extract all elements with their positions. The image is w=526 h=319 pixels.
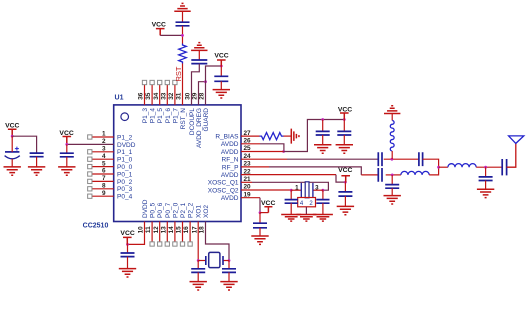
wire gnd to L1 — [391, 114, 393, 121]
pin 36 P1_3 (top) — [138, 80, 149, 123]
power VCC (bottom) — [120, 230, 134, 244]
ground below C18 — [337, 206, 354, 214]
junction far-left VCC — [11, 135, 14, 138]
svg-text:P1_4: P1_4 — [150, 108, 157, 124]
svg-text:RST: RST — [174, 66, 183, 81]
ground below C3 — [58, 167, 75, 175]
svg-text:32: 32 — [168, 92, 175, 100]
svg-text:P0_2: P0_2 — [117, 179, 133, 186]
pin 18 XO2 (bottom) — [199, 205, 210, 234]
wire C17 to antenna — [507, 143, 516, 167]
ground below C11 — [336, 145, 353, 153]
svg-text:14: 14 — [168, 226, 175, 234]
wire C4 to R1 — [182, 26, 184, 44]
pin 21 XOSC_Q1 (right label) — [208, 176, 251, 187]
junction pins25/26 — [282, 150, 285, 153]
svg-text:17: 17 — [191, 226, 198, 234]
label RST — [174, 66, 183, 81]
junction rail VCC — [343, 118, 346, 121]
svg-text:11: 11 — [145, 226, 152, 233]
capacitor C10 — [316, 131, 330, 135]
svg-text:DVDD: DVDD — [142, 199, 149, 218]
svg-text:P2_0: P2_0 — [172, 202, 179, 218]
svg-text:VCC: VCC — [5, 123, 19, 130]
wire pin28 to VCC — [206, 66, 222, 105]
svg-text:RF_P: RF_P — [222, 164, 239, 171]
wire pin20 — [241, 189, 291, 191]
capacitor C18 — [338, 192, 352, 196]
wire R1 to pin31 — [182, 64, 184, 105]
pin 35 P1_4 (top) — [145, 80, 156, 123]
capacitor C11 — [337, 131, 351, 135]
svg-text:15: 15 — [176, 226, 183, 234]
wire VCC to C6 — [220, 66, 222, 76]
svg-text:29: 29 — [192, 92, 199, 100]
wire C8 to ground — [197, 272, 199, 281]
capacitor C9 — [222, 269, 236, 273]
pin 7 P0_2 (left) — [88, 175, 133, 186]
junction VCC right-top — [220, 65, 223, 68]
wire rail to C10 — [322, 120, 324, 132]
ground below C6 — [213, 90, 230, 98]
capacitor C21 — [253, 223, 267, 228]
svg-text:RST_N: RST_N — [180, 108, 187, 130]
svg-text:AVDD: AVDD — [221, 141, 239, 148]
wire C13 to combiner — [423, 159, 439, 167]
svg-text:8: 8 — [102, 183, 106, 190]
capacitor C8 — [191, 269, 205, 273]
power VCC net 2 (DVDD pin2) — [59, 130, 73, 145]
wire C11 to ground — [343, 135, 345, 145]
ground below C8 — [190, 282, 207, 290]
junction Y2 right — [228, 259, 231, 262]
svg-text:AVDD: AVDD — [221, 172, 239, 179]
pin 12 P0_6 (bottom) — [153, 202, 164, 246]
wire rail to C11 — [343, 120, 345, 132]
svg-text:XOSC_Q1: XOSC_Q1 — [208, 180, 239, 187]
ground (top, above C4) — [174, 3, 190, 11]
wire C7 to ground — [127, 257, 129, 269]
ground (above L1) — [384, 106, 400, 114]
wire C21 to ground — [259, 228, 261, 236]
svg-text:GUARD: GUARD — [203, 108, 210, 132]
wire VCC1 to C2 — [12, 136, 36, 153]
resistor R2 (R_BIAS) — [260, 133, 284, 140]
svg-text:3: 3 — [102, 146, 106, 153]
svg-text:34: 34 — [153, 92, 160, 100]
ground below C19 — [281, 215, 301, 222]
wire combiner to L3 — [439, 166, 448, 168]
pin 24 RF_N (right label) — [222, 153, 252, 164]
pin 22 AVDD (right label) — [221, 168, 251, 179]
svg-text:P0_6: P0_6 — [157, 202, 164, 218]
svg-text:33: 33 — [160, 92, 167, 100]
wire Y1 gnd pins to ground — [305, 207, 307, 215]
svg-text:U1: U1 — [115, 95, 124, 102]
svg-text:P0_5: P0_5 — [150, 202, 157, 218]
wire pin29 to pin28 column — [199, 82, 206, 105]
label Y1 pin 3 — [315, 184, 319, 191]
crystal Y2 (32kHz) — [198, 252, 229, 267]
capacitor C7 — [121, 253, 135, 257]
capacitor C3 — [60, 144, 74, 167]
wire pin19 — [241, 198, 260, 213]
junction Y1 right — [322, 189, 325, 192]
svg-text:VCC: VCC — [214, 52, 228, 59]
svg-text:36: 36 — [138, 92, 145, 100]
wire C10 to ground — [322, 135, 324, 145]
junction RST node — [181, 34, 184, 37]
capacitor C1 (polarized, far left) — [5, 136, 20, 167]
wire Y2 to C9 — [228, 261, 230, 269]
wire pin21 — [241, 182, 328, 190]
power VCC (pin19) — [260, 200, 275, 212]
svg-text:DCOUPL: DCOUPL — [189, 108, 196, 135]
svg-text:12: 12 — [153, 226, 160, 234]
svg-text:30: 30 — [185, 92, 192, 100]
svg-text:CC2510: CC2510 — [83, 223, 109, 230]
svg-text:10: 10 — [138, 226, 145, 234]
pin 33 P1_6 (top) — [160, 80, 171, 123]
wire to C16 — [485, 167, 487, 177]
svg-text:P1_2: P1_2 — [117, 134, 133, 141]
wire R2 to ground — [284, 135, 292, 137]
capacitor C13 (series) — [419, 152, 423, 166]
capacitor C17 (series to antenna) — [502, 159, 506, 175]
pin 11 P0_5 (bottom) — [145, 202, 156, 246]
svg-text:P1_1: P1_1 — [117, 149, 133, 156]
pin 8 P0_3 (left) — [88, 183, 133, 194]
pin 29 AVDD_DREG (top) — [192, 92, 203, 148]
wire C14 to L2 — [386, 174, 401, 176]
wire pin17 to Y2 — [197, 222, 199, 261]
svg-text:28: 28 — [199, 92, 206, 100]
svg-text:P0_7: P0_7 — [165, 202, 172, 218]
svg-text:XO2: XO2 — [203, 205, 210, 218]
pin 2 DVDD (left) — [67, 138, 136, 149]
junction antenna shunt — [484, 166, 487, 169]
ground below C21 — [251, 236, 268, 244]
pin 27 R_BIAS (right label) — [215, 130, 251, 141]
svg-text:P0_4: P0_4 — [117, 194, 133, 201]
wire C9 to ground — [228, 272, 230, 281]
label U1 — [115, 95, 124, 102]
wire RF_N — [241, 158, 378, 160]
junction RF_P shunt — [391, 174, 394, 177]
pin 34 P1_5 (top) — [153, 80, 164, 123]
pin 25 AVDD (right label) — [221, 145, 251, 156]
ground below C20 — [313, 215, 333, 222]
op-amp U1 CC2510 chip body — [114, 105, 241, 222]
ground (rotated, R_BIAS) — [291, 129, 299, 144]
pin 19 AVDD (right label) — [221, 191, 251, 202]
power VCC net 1 (far left) — [5, 123, 19, 137]
wire pin10 to VCC — [128, 222, 145, 245]
capacitor C20 — [316, 200, 329, 204]
wire L2 to combiner — [429, 167, 438, 175]
svg-text:7: 7 — [102, 175, 106, 182]
ground below C1 — [4, 167, 21, 175]
junction VCC2 — [65, 143, 68, 146]
pin 32 P1_7 (top) — [168, 80, 179, 123]
svg-text:3: 3 — [315, 184, 319, 191]
wire C5 to pin30 — [192, 64, 200, 105]
svg-text:9: 9 — [102, 190, 106, 197]
wire gnd to C5 — [198, 50, 200, 60]
capacitor C2 — [30, 153, 44, 167]
svg-text:AVDD_DREG: AVDD_DREG — [196, 108, 203, 148]
inductor L2 (series RF_P) — [401, 171, 429, 175]
capacitor C14 (series RF_P) — [378, 168, 382, 182]
svg-text:P0_0: P0_0 — [117, 164, 133, 171]
junction combiner — [437, 166, 440, 169]
wire to VCC rail — [284, 120, 345, 152]
wire VCC to RST node — [160, 34, 182, 36]
svg-text:P0_3: P0_3 — [117, 186, 133, 193]
pin 14 P2_0 (bottom) — [168, 202, 179, 246]
wire Y1 to C19 — [290, 190, 292, 199]
junction pin19 VCC — [259, 211, 262, 214]
pin 6 P0_1 (left) — [88, 168, 133, 179]
pin 15 P2_1 (bottom) — [176, 202, 187, 246]
wire C12 to corner — [384, 158, 419, 160]
svg-text:P0_1: P0_1 — [117, 171, 133, 178]
svg-text:6: 6 — [102, 168, 106, 175]
svg-text:P1_5: P1_5 — [157, 108, 164, 124]
wire RF_P — [241, 167, 361, 175]
wire C6 to ground — [220, 81, 222, 89]
junction RF_N / L1 — [391, 158, 394, 161]
pin 10 DVDD (bottom) — [138, 199, 149, 233]
svg-text:VCC: VCC — [152, 22, 166, 29]
power VCC (top) — [152, 22, 166, 36]
svg-text:P2_2: P2_2 — [188, 202, 195, 218]
svg-text:P2_1: P2_1 — [180, 202, 187, 218]
svg-text:P1_0: P1_0 — [117, 157, 133, 164]
junction Y2 left — [197, 259, 200, 262]
power VCC (pin22) — [338, 167, 352, 182]
svg-text:XO1: XO1 — [196, 205, 203, 218]
junction Y1 left — [290, 189, 293, 192]
pin 1 P1_2 (left) — [88, 131, 133, 142]
junction pin10 VCC — [126, 243, 129, 246]
pin 9 P0_4 (left) — [88, 190, 133, 201]
svg-text:31: 31 — [176, 92, 183, 100]
wire C19 to ground — [290, 203, 292, 214]
svg-text:P1_7: P1_7 — [172, 108, 179, 124]
capacitor C12 (series RF_N) — [378, 152, 382, 166]
wire pin26 — [241, 144, 284, 152]
inductor L3 (series) — [448, 164, 476, 168]
pin 20 XOSC_Q2 (right label) — [208, 184, 251, 195]
capacitor C5 (DCOUPL) — [191, 60, 207, 64]
wire Y1 to C20 — [322, 190, 324, 199]
svg-text:16: 16 — [183, 226, 190, 234]
svg-text:4: 4 — [102, 153, 106, 160]
svg-text:R_BIAS: R_BIAS — [215, 134, 239, 141]
svg-text:18: 18 — [199, 226, 206, 234]
ground (above C5 DCOUPL) — [191, 43, 207, 51]
junction pin28 column — [204, 80, 207, 83]
power VCC (right of chip top) — [214, 52, 228, 66]
capacitor C6 — [214, 76, 228, 81]
wire VCC to C7 — [127, 244, 129, 253]
svg-text:P1_6: P1_6 — [165, 108, 172, 124]
ground below C16 — [477, 189, 494, 197]
svg-text:AVDD: AVDD — [221, 195, 239, 202]
label Y1 pin 1 — [295, 184, 299, 191]
ground below C7 — [119, 269, 136, 277]
resistor R1 (RST pullup) — [179, 44, 187, 64]
capacitor C15 (shunt) — [385, 185, 399, 189]
wire L1 to RF_N — [391, 151, 393, 159]
junction rail capA — [321, 118, 324, 121]
svg-text:VCC: VCC — [338, 167, 352, 174]
pin 16 P2_2 (bottom) — [183, 202, 194, 246]
svg-text:5: 5 — [102, 160, 106, 167]
wire Y2 to C8 — [197, 261, 199, 269]
pin 31 RST_N (top) — [176, 92, 187, 129]
svg-text:P1_3: P1_3 — [142, 108, 149, 124]
svg-text:VCC: VCC — [120, 230, 134, 237]
capacitor C19 — [285, 200, 298, 204]
wire to C15 — [391, 175, 393, 185]
pin 26 AVDD (right label) — [221, 138, 251, 149]
pin 17 XO1 (bottom) — [191, 205, 202, 234]
wire pin22 — [241, 175, 345, 183]
pin 28 GUARD (top) — [199, 92, 210, 131]
wire C16 to ground — [485, 181, 487, 190]
wire pin27 to R2 — [241, 135, 260, 137]
wire gnd to C4 — [182, 11, 184, 22]
junction pin22 VCC — [344, 181, 347, 184]
ground below Y1 — [296, 215, 316, 222]
wire C15 to ground — [391, 188, 393, 195]
power VCC (AVDD rail) — [338, 106, 352, 119]
ground below C15 — [384, 196, 401, 204]
wire L3 to C16 node — [476, 166, 502, 168]
ground below C9 — [220, 282, 237, 290]
svg-text:2: 2 — [102, 138, 106, 145]
pin 13 P0_7 (bottom) — [160, 202, 171, 246]
svg-text:AVDD: AVDD — [221, 149, 239, 156]
wire C20 to ground — [322, 203, 324, 214]
pin 3 P1_1 (left) — [88, 146, 133, 157]
pin 5 P0_0 (left) — [88, 160, 133, 171]
capacitor C4 (RST) — [176, 22, 190, 26]
wire pin18 to Y2 — [206, 222, 230, 261]
pin 23 RF_P (right label) — [222, 161, 251, 172]
svg-text:13: 13 — [160, 226, 167, 234]
pin 4 P1_0 (left) — [88, 153, 133, 164]
inductor L1 (shunt) — [390, 121, 394, 152]
antenna ANT1 — [509, 136, 524, 144]
label CC2510 — [83, 223, 109, 230]
pin 30 DCOUPL (top) — [185, 92, 196, 135]
svg-text:1: 1 — [295, 184, 299, 191]
capacitor C16 (shunt) — [479, 177, 493, 181]
svg-text:35: 35 — [145, 92, 152, 100]
wire to C21 — [259, 213, 261, 224]
svg-text:DVDD: DVDD — [117, 142, 136, 149]
svg-text:RF_N: RF_N — [222, 157, 239, 164]
svg-text:1: 1 — [102, 131, 106, 138]
wire RF_P to C14 — [361, 174, 378, 176]
svg-text:XOSC_Q2: XOSC_Q2 — [208, 187, 239, 194]
wire to C18 — [344, 182, 346, 192]
ground below C2 — [28, 167, 45, 175]
ground below C10 — [314, 145, 331, 153]
wire pin25 — [241, 151, 284, 153]
crystal Y1 (26MHz) — [291, 182, 323, 207]
wire C18 to ground — [344, 196, 346, 206]
